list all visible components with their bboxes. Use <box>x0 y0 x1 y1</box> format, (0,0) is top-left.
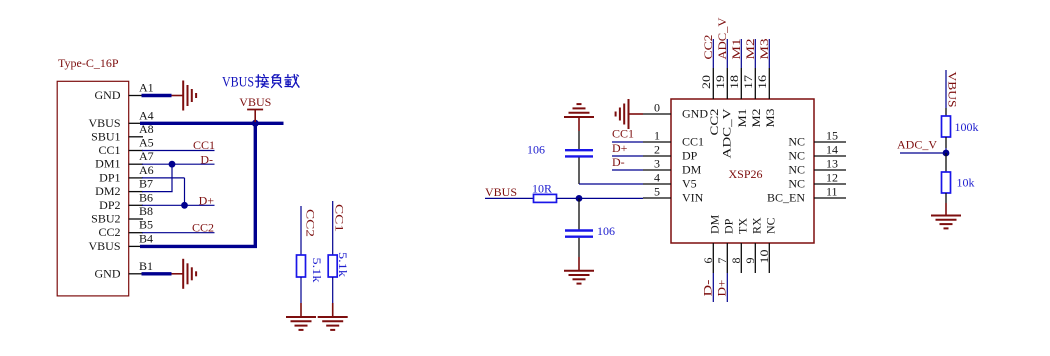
svg-text:8: 8 <box>729 258 743 264</box>
svg-text:M1: M1 <box>735 109 749 128</box>
wire net M1 top <box>729 39 743 69</box>
svg-text:D+: D+ <box>199 194 215 208</box>
wire D- A7 <box>142 153 215 167</box>
pin CC1 A5 <box>98 136 153 158</box>
CJK jie <box>255 75 268 88</box>
svg-text:M3: M3 <box>757 39 771 60</box>
pin 10 NC bottom <box>757 217 778 273</box>
ground below R_CC2 <box>286 303 316 330</box>
pin VBUS A4 <box>88 108 153 130</box>
pin DP1 A6 <box>99 163 154 185</box>
wire VBUS to R 10R <box>485 197 534 199</box>
pin 17 M2 top <box>741 68 763 128</box>
pin CC2 B5 <box>98 218 153 240</box>
svg-text:2: 2 <box>654 143 660 157</box>
svg-text:NC: NC <box>788 149 805 163</box>
SECTION: pull-down resistors <box>286 201 350 330</box>
pin 6 DM bottom <box>701 214 722 273</box>
svg-text:DP2: DP2 <box>99 198 120 212</box>
wire A6 <box>142 177 185 179</box>
junction at VIN node <box>576 195 583 202</box>
svg-text:NC: NC <box>763 217 777 234</box>
ground at B1 <box>172 259 197 289</box>
svg-text:D+: D+ <box>612 141 628 155</box>
svg-text:10: 10 <box>757 250 771 264</box>
wire VBUS bus A4 thick <box>140 122 284 125</box>
ground at pin 0 <box>616 99 643 129</box>
svg-text:A5: A5 <box>139 136 154 150</box>
wire net D- pin3 <box>612 155 643 170</box>
svg-text:DM: DM <box>682 163 702 177</box>
wire net D+ pin2 <box>612 141 643 156</box>
resistor R 10k <box>942 153 975 203</box>
pin 8 TX bottom <box>729 218 750 273</box>
svg-text:16: 16 <box>755 75 769 89</box>
pin 15 NC right <box>788 129 846 149</box>
wire net M3 top <box>757 39 771 69</box>
SECTION: Type-C connector <box>57 56 299 296</box>
SECTION: input filter <box>485 104 643 284</box>
power port VBUS <box>239 95 271 122</box>
svg-text:NC: NC <box>788 163 805 177</box>
capacitor C2 106 <box>565 198 615 257</box>
pin DP2 B6 <box>99 190 153 212</box>
svg-text:5: 5 <box>654 185 660 199</box>
wire D+ B6 <box>142 194 215 208</box>
svg-text:CC2: CC2 <box>98 225 120 239</box>
resistor R_CC1 5.1k <box>328 252 350 277</box>
wire net ADC_V top <box>715 17 729 68</box>
pin DM1 A7 <box>95 149 154 171</box>
svg-text:DP: DP <box>682 149 698 163</box>
wire below R_CC1 <box>332 277 334 303</box>
wire CC2 net <box>300 206 302 256</box>
svg-text:TX: TX <box>735 218 749 234</box>
svg-text:106: 106 <box>527 143 545 157</box>
pin 20 CC2 top <box>699 68 721 136</box>
svg-text:VBUS: VBUS <box>485 185 517 199</box>
wire A1 thick <box>142 94 172 97</box>
wire CC2 B5 <box>142 221 215 235</box>
svg-text:3: 3 <box>654 157 660 171</box>
svg-text:VBUS: VBUS <box>239 95 271 109</box>
svg-text:B5: B5 <box>139 218 153 232</box>
svg-text:A7: A7 <box>139 149 154 163</box>
svg-text:18: 18 <box>727 75 741 89</box>
wire to ADC node <box>945 148 947 153</box>
svg-text:5.1k: 5.1k <box>336 252 350 277</box>
svg-text:D-: D- <box>200 153 213 167</box>
IC U1 XSP26 body <box>671 99 814 243</box>
svg-text:BC_EN: BC_EN <box>767 191 805 205</box>
svg-text:XSP26: XSP26 <box>729 167 763 181</box>
svg-text:CC1: CC1 <box>612 127 634 141</box>
wire net CC1 pin1 <box>612 127 643 143</box>
svg-text:CC1: CC1 <box>682 135 704 149</box>
wire net ADC_V <box>897 138 946 154</box>
svg-text:10k: 10k <box>957 176 975 190</box>
pin 1 CC1 left <box>643 129 704 149</box>
svg-text:DM: DM <box>707 214 721 234</box>
svg-text:D-: D- <box>700 280 714 297</box>
svg-text:A1: A1 <box>139 81 154 95</box>
resistor R 10R <box>532 182 557 203</box>
svg-text:19: 19 <box>713 75 727 89</box>
svg-text:M2: M2 <box>749 109 763 128</box>
svg-text:M1: M1 <box>729 39 743 60</box>
pin 9 RX bottom <box>743 217 764 273</box>
svg-text:14: 14 <box>826 143 838 157</box>
svg-text:10R: 10R <box>532 182 552 196</box>
svg-text:0: 0 <box>654 101 660 115</box>
svg-text:CC1: CC1 <box>193 138 215 152</box>
svg-text:D+: D+ <box>714 279 728 296</box>
svg-text:SBU1: SBU1 <box>91 129 120 143</box>
wire B7 <box>142 191 173 193</box>
svg-text:VBUS: VBUS <box>88 116 120 130</box>
svg-text:A6: A6 <box>139 163 154 177</box>
svg-text:VBUS: VBUS <box>222 75 254 91</box>
wire VBUS bus B4 thick <box>140 245 257 248</box>
wire net M2 top <box>743 39 757 69</box>
SECTION: ADC divider <box>897 70 979 228</box>
wire net D- bottom <box>700 273 714 302</box>
svg-text:4: 4 <box>654 171 660 185</box>
wire net D+ bottom <box>714 273 728 302</box>
resistor R_CC2 5.1k <box>297 255 325 283</box>
svg-text:7: 7 <box>715 258 729 264</box>
svg-text:SBU2: SBU2 <box>91 212 120 226</box>
wire C1 to pin 4 V5 <box>579 183 643 185</box>
svg-text:V5: V5 <box>682 177 697 191</box>
svg-text:A4: A4 <box>139 108 154 122</box>
pin SBU2 B8 <box>91 204 153 226</box>
pin 5 VIN left <box>643 185 704 205</box>
svg-text:RX: RX <box>749 217 763 234</box>
svg-text:B8: B8 <box>139 204 153 218</box>
svg-text:106: 106 <box>597 224 615 238</box>
svg-text:CC1: CC1 <box>333 204 347 232</box>
pin 19 ADC_V top <box>713 68 734 159</box>
junction ADC node <box>943 150 950 157</box>
svg-text:Type-C_16P: Type-C_16P <box>58 56 119 70</box>
svg-text:CC2: CC2 <box>701 35 715 60</box>
capacitor C1 106 <box>527 131 593 184</box>
svg-text:13: 13 <box>826 157 838 171</box>
svg-text:20: 20 <box>699 75 713 89</box>
svg-text:DM2: DM2 <box>95 184 120 198</box>
svg-text:DM1: DM1 <box>95 157 120 171</box>
svg-text:M3: M3 <box>763 109 777 128</box>
svg-text:NC: NC <box>788 177 805 191</box>
pin DM2 B7 <box>95 177 153 199</box>
svg-text:B6: B6 <box>139 190 153 204</box>
ground below R_CC1 <box>318 303 348 330</box>
CJK zai <box>285 75 299 88</box>
wire A7 to B7 <box>171 164 173 191</box>
svg-text:VBUS: VBUS <box>88 239 120 253</box>
svg-text:CC2: CC2 <box>192 221 214 235</box>
svg-text:17: 17 <box>741 75 755 89</box>
svg-text:ADC_V: ADC_V <box>719 108 733 158</box>
wire below R_CC2 <box>300 277 302 303</box>
svg-text:9: 9 <box>743 258 757 264</box>
ground below C2 <box>564 257 594 284</box>
svg-text:5.1k: 5.1k <box>310 258 324 283</box>
connector J1 Type-C_16P body <box>57 56 129 296</box>
pin GND A1 <box>95 81 154 103</box>
wire VBUS bus vertical thick <box>254 122 257 248</box>
svg-text:15: 15 <box>826 129 838 143</box>
wire net VBUS top <box>946 70 960 108</box>
svg-text:11: 11 <box>826 185 838 199</box>
svg-text:DP1: DP1 <box>99 170 120 184</box>
svg-text:D-: D- <box>612 155 625 169</box>
svg-text:6: 6 <box>701 258 715 264</box>
junction on VBUS bus <box>252 120 259 127</box>
pin 2 DP left <box>643 143 698 163</box>
pin VBUS B4 <box>88 231 153 253</box>
svg-text:B7: B7 <box>139 177 153 191</box>
ground at A1 <box>172 81 197 111</box>
pin GND B1 <box>95 259 154 281</box>
svg-text:NC: NC <box>788 135 805 149</box>
pin 12 NC right <box>788 171 846 191</box>
svg-text:GND: GND <box>95 88 121 102</box>
svg-text:12: 12 <box>826 171 838 185</box>
pin 16 M3 top <box>755 68 777 128</box>
svg-text:ADC_V: ADC_V <box>715 17 729 59</box>
svg-text:B4: B4 <box>139 231 153 245</box>
pin 7 DP bottom <box>715 218 736 273</box>
svg-text:B1: B1 <box>139 259 153 273</box>
CJK fu <box>272 75 282 88</box>
svg-text:M2: M2 <box>743 39 757 60</box>
pin SBU1 A8 <box>91 122 154 144</box>
junction on B6 <box>181 202 188 209</box>
svg-text:100k: 100k <box>955 120 979 134</box>
pin 18 M1 top <box>727 68 749 128</box>
title VBUS load text <box>222 75 299 91</box>
wire CC1 net <box>332 201 334 256</box>
svg-text:CC1: CC1 <box>98 143 120 157</box>
svg-text:VBUS: VBUS <box>946 72 960 108</box>
pin 0 GND left <box>643 101 708 121</box>
pin 3 DM left <box>643 157 702 177</box>
wire B1 thick <box>142 272 172 275</box>
svg-text:DP: DP <box>721 218 735 234</box>
svg-text:VIN: VIN <box>682 191 704 205</box>
svg-text:GND: GND <box>95 266 121 280</box>
wire CC1 A5 <box>142 138 215 152</box>
svg-text:1: 1 <box>654 129 660 143</box>
pin 14 NC right <box>788 143 846 163</box>
svg-text:GND: GND <box>682 107 708 121</box>
ground above C1 (pointing up) <box>564 104 594 131</box>
svg-text:CC2: CC2 <box>304 209 318 237</box>
SECTION: IC XSP26 <box>612 17 846 302</box>
pin 11 BC_EN right <box>767 185 846 205</box>
wire 10R to pin 5 VIN <box>557 197 644 199</box>
pin 4 V5 left <box>643 171 697 191</box>
wire A6 to B6 <box>184 178 186 205</box>
pin 13 NC right <box>788 157 846 177</box>
wire net CC2 top <box>701 35 715 69</box>
ground below 10k <box>931 203 961 228</box>
resistor R 100k <box>942 108 979 148</box>
svg-text:ADC_V: ADC_V <box>897 138 937 152</box>
junction on A7 <box>169 161 176 168</box>
